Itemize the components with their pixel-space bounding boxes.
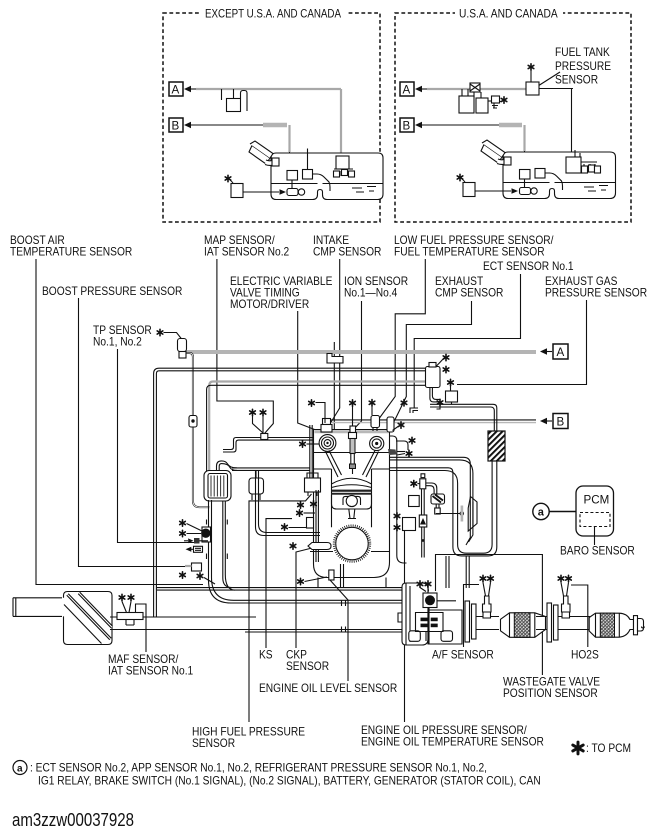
svg-text:HO2S: HO2S	[571, 649, 599, 662]
canister shut valve box	[231, 184, 243, 198]
svg-text:A: A	[403, 84, 411, 97]
leader boost pressure sensor	[79, 298, 194, 567]
exhaust crossover pipe	[390, 457, 473, 545]
intake CMP sensor stack	[323, 419, 331, 425]
MAF leader	[136, 604, 147, 652]
exhaust flange plates	[465, 601, 470, 642]
canister vent J-pipe	[241, 91, 248, 112]
bell housing	[402, 583, 428, 645]
mid asterisk w/ line	[297, 510, 303, 516]
inline connector on wire	[189, 416, 197, 428]
piston skirt	[332, 495, 372, 509]
canister	[227, 99, 241, 112]
wire to A with arrow	[184, 86, 191, 92]
svg-text:No.1—No.4: No.1—No.4	[344, 287, 398, 300]
gray stub below canister	[430, 388, 441, 402]
svg-text:B: B	[172, 120, 180, 133]
throttle pipe down	[209, 500, 407, 603]
vent valve with asterisk	[492, 96, 500, 103]
asterisk above FTP sensor	[528, 64, 534, 70]
outer jacket right	[390, 436, 407, 563]
intake pipe left riser down to air cleaner	[154, 368, 159, 617]
piston rings	[332, 490, 372, 492]
svg-text:BOOST PRESSURE SENSOR: BOOST PRESSURE SENSOR	[42, 285, 182, 298]
svg-text:FUEL TEMPERATURE SENSOR: FUEL TEMPERATURE SENSOR	[394, 246, 545, 259]
wastegate leader	[436, 555, 543, 676]
pipe to hatched cooler	[430, 404, 497, 431]
svg-text:a: a	[538, 507, 545, 519]
fuel level line	[272, 183, 383, 185]
turbo inlet stubs	[446, 556, 469, 588]
TP sensor body	[178, 339, 187, 352]
svg-text:BARO SENSOR: BARO SENSOR	[560, 545, 635, 558]
dipstick rod	[436, 513, 460, 515]
block lower left pipe	[256, 470, 321, 535]
exhaust CMP circle	[370, 436, 384, 450]
tank internal squares on B line	[520, 170, 531, 180]
MAP sensor funnel asterisks	[250, 409, 256, 415]
svg-text:SENSOR: SENSOR	[192, 737, 235, 750]
leader TP sensor	[118, 349, 199, 543]
canister shut valve box	[463, 183, 475, 197]
jet pump	[287, 189, 298, 196]
svg-text:A: A	[557, 346, 565, 359]
svg-text:B: B	[557, 416, 565, 429]
electric VVT motor circle	[319, 435, 336, 452]
subframe rails	[157, 588, 406, 591]
bolt ticks on rails	[342, 600, 346, 632]
air inlet pipe	[13, 598, 62, 617]
svg-text:B: B	[403, 120, 411, 133]
EGR pressure sensor square	[448, 379, 454, 385]
canister asterisks	[437, 357, 446, 366]
tank internal squares on B line	[287, 171, 298, 181]
intercooler	[204, 471, 231, 502]
svg-text:FUEL TANK: FUEL TANK	[555, 46, 610, 59]
hatched cooler block	[488, 431, 505, 461]
intake pipe top run	[159, 368, 426, 371]
boost pressure sensor connector	[192, 563, 202, 571]
head right small part	[387, 417, 394, 432]
fuel pump module	[575, 150, 580, 157]
node A (except USA/Canada)	[169, 82, 183, 96]
wire down to fuel pump unit	[340, 89, 342, 157]
svg-text:ECT SENSOR No.1: ECT SENSOR No.1	[483, 260, 574, 273]
leader intake CMP sensor	[331, 259, 340, 423]
connector on harness bar	[327, 354, 343, 364]
leader low fuel pressure sensor	[376, 259, 426, 424]
ion sensor spark plug	[352, 407, 354, 427]
leader boost air temperature sensor	[36, 259, 203, 585]
node B (engine)	[553, 414, 568, 429]
tail pipe	[634, 616, 638, 635]
turbo body	[428, 610, 462, 644]
svg-text:M: M	[203, 531, 209, 538]
small box left of cluster	[409, 496, 420, 507]
svg-text:ENGINE OIL LEVEL SENSOR: ENGINE OIL LEVEL SENSOR	[259, 682, 397, 695]
low fuel pressure sensor box	[371, 416, 380, 428]
fuel pump hanger	[336, 156, 349, 169]
asterisk	[225, 175, 231, 181]
jet pump	[520, 188, 531, 195]
svg-text:: TO PCM: : TO PCM	[586, 742, 631, 755]
catalytic converter 2	[589, 613, 633, 637]
svg-text:IG1 RELAY, BRAKE SWITCH (No.1: IG1 RELAY, BRAKE SWITCH (No.1 SIGNAL), (…	[38, 775, 541, 788]
turbo outlet coupling cross	[421, 618, 428, 622]
harness bar to node A	[186, 350, 536, 354]
asterisk: TO PCM	[573, 742, 583, 754]
fuel ripples	[352, 187, 376, 193]
oil level sensor nub	[329, 570, 334, 580]
catalytic converter 1	[501, 613, 546, 638]
PCM assembly: circle a	[533, 503, 549, 519]
dashed enclosure U.S.A. AND CANADA	[395, 13, 631, 222]
filler neck	[249, 146, 270, 165]
node A (engine)	[553, 344, 568, 359]
crank gear	[334, 526, 369, 561]
wire to B with arrow	[184, 122, 191, 128]
svg-text:PRESSURE: PRESSURE	[555, 60, 611, 73]
svg-text:am3zzw00037928: am3zzw00037928	[12, 809, 134, 830]
svg-text:EXCEPT U.S.A. AND CANADA: EXCEPT U.S.A. AND CANADA	[205, 8, 341, 21]
HO2S leader	[571, 585, 588, 647]
dashed enclosure EXCEPT U.S.A. AND CANADA	[163, 13, 380, 222]
svg-text:MOTOR/DRIVER: MOTOR/DRIVER	[230, 298, 309, 311]
footnote circle a	[13, 761, 27, 775]
node A (USA/Canada)	[400, 82, 414, 96]
gray pipe corner down	[288, 125, 290, 152]
air cleaner element diagonal band	[68, 595, 111, 640]
pipe clamp ticks	[207, 520, 228, 560]
engine: intake manifold runners	[223, 438, 314, 450]
svg-text:CMP SENSOR: CMP SENSOR	[313, 246, 381, 259]
purge pipe into canister	[222, 89, 234, 100]
leader ECT sensor No.1	[414, 274, 520, 408]
MAF sensor	[117, 613, 143, 620]
svg-text:: ECT SENSOR No.2, APP SENSOR: : ECT SENSOR No.2, APP SENSOR No.1, No.2…	[30, 762, 487, 775]
leader ion sensor	[355, 301, 362, 428]
arrow left from connector	[191, 548, 203, 550]
pipe to node B	[330, 419, 536, 421]
high fuel pressure leader	[249, 494, 312, 722]
svg-text:U.S.A. AND CANADA: U.S.A. AND CANADA	[459, 8, 558, 21]
dipstick tube	[316, 490, 318, 562]
corner fitting near ECT	[410, 408, 418, 413]
svg-text:a: a	[17, 764, 23, 775]
wire from TP sensor down	[187, 353, 210, 507]
fuel tank pressure sensor on line	[526, 82, 539, 95]
left fuel rail part	[249, 478, 264, 494]
cylinder bores	[332, 469, 372, 527]
svg-text:TEMPERATURE SENSOR: TEMPERATURE SENSOR	[10, 246, 132, 259]
ECT sensor part	[396, 441, 408, 450]
wastegate motor box	[423, 593, 437, 608]
gray pipe to canister	[213, 380, 426, 382]
leader exhaust gas pressure sensor	[457, 300, 587, 385]
duct from air cleaner	[110, 617, 406, 630]
intake CMP asterisk marker	[309, 400, 315, 406]
pipe	[536, 617, 547, 630]
TP sensor asterisk	[157, 329, 163, 335]
CKP leader and sensor	[296, 548, 312, 648]
line from valve to pump w/ arrow	[243, 191, 279, 193]
svg-text:A/F SENSOR: A/F SENSOR	[432, 649, 494, 662]
heat shield blade	[468, 497, 477, 532]
wrist pin	[343, 496, 361, 505]
oil level leader	[330, 580, 348, 681]
svg-text:SENSOR: SENSOR	[286, 660, 329, 673]
filler neck	[481, 145, 502, 164]
oil pan sides	[318, 578, 386, 588]
valve cover / block outline	[314, 430, 390, 578]
KS leader and knock sensor	[266, 519, 292, 648]
purge canister	[426, 367, 441, 388]
fuel tank (except USA/Canada)	[271, 153, 383, 200]
block chord line	[310, 551, 390, 553]
leader MAP sensor	[217, 259, 273, 434]
combustion dome	[332, 478, 372, 484]
svg-text:KS: KS	[259, 649, 273, 662]
exhaust downpipe U-run	[390, 461, 497, 556]
fuel line cluster right of block	[421, 474, 425, 478]
arrow right into connector	[184, 540, 188, 542]
throttle motor	[202, 527, 211, 542]
svg-text:IAT SENSOR No.2: IAT SENSOR No.2	[204, 246, 289, 259]
canister assembly	[470, 83, 480, 92]
flange plates mid	[547, 603, 552, 642]
wire down to tank	[571, 89, 573, 154]
fuel tank (USA/Canada)	[503, 152, 616, 199]
fuel injector lower	[419, 515, 427, 527]
pipe to converter	[476, 617, 499, 630]
svg-text:No.1, No.2: No.1, No.2	[93, 336, 142, 349]
leader exhaust CMP sensor	[386, 301, 472, 439]
svg-text:SENSOR: SENSOR	[555, 74, 598, 87]
A/F sensor boss	[483, 596, 492, 612]
asterisk marker near canister stem	[437, 399, 443, 405]
BARO sensor dashed box	[580, 513, 610, 527]
HO2S boss	[562, 596, 571, 612]
svg-text:PRESSURE SENSOR: PRESSURE SENSOR	[545, 287, 647, 300]
oil pressure sensor	[403, 518, 416, 531]
node B (USA/Canada)	[400, 118, 414, 132]
node B (except USA/Canada)	[169, 118, 183, 132]
svg-text:PCM: PCM	[584, 494, 610, 507]
injection pump part	[431, 494, 445, 504]
right head asterisks	[401, 400, 407, 406]
valve V lines	[326, 451, 379, 478]
svg-text:IAT SENSOR No.1: IAT SENSOR No.1	[108, 665, 193, 678]
PCM box	[576, 486, 614, 536]
connecting rod	[348, 509, 356, 519]
svg-text:M: M	[427, 598, 433, 605]
high fuel pressure pump	[305, 478, 321, 492]
svg-text:A: A	[172, 84, 180, 97]
leader electric VVT motor	[298, 311, 321, 432]
svg-text:ENGINE OIL TEMPERATURE SENSOR: ENGINE OIL TEMPERATURE SENSOR	[361, 736, 544, 749]
svg-text:CMP SENSOR: CMP SENSOR	[435, 287, 503, 300]
svg-text:POSITION SENSOR: POSITION SENSOR	[503, 687, 598, 700]
air cleaner box	[64, 592, 113, 645]
throttle cluster: asterisks	[180, 520, 186, 526]
A/F sensor leader	[464, 585, 480, 648]
